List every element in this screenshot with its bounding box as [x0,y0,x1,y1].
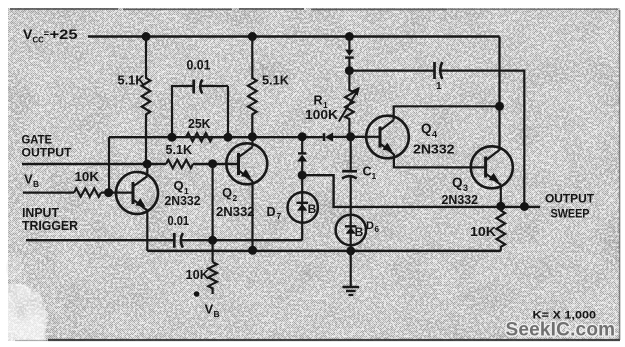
resistor 5.1K mid (horizontal) [166,160,193,168]
svg-text:V: V [205,302,214,317]
diode on node line (pointing left) [324,133,333,142]
capacitor 1 plates [435,62,443,79]
resistor 10K bottom (vertical) [208,262,217,294]
wire Q4 emitter to Q3 base [394,154,486,167]
svg-text:+25: +25 [50,26,78,42]
node dot Vcc/R-5.1K-left [142,32,151,41]
svg-text:0.01: 0.01 [187,57,211,73]
diode D6 (breakdown) [336,215,366,246]
svg-text:Q: Q [452,175,463,190]
label C1 [363,164,377,181]
svg-text:V: V [23,26,33,42]
wire D6 to bus [350,245,352,251]
svg-text:5.1K: 5.1K [166,143,193,157]
label GATE OUTPUT [22,132,73,159]
node dot trigger/riser [208,236,217,245]
resistor 10K left (horizontal) [74,188,101,196]
wire emitter bus line2 (y=250.9) [147,250,501,253]
diode pointing up (above D7) [297,153,307,161]
svg-text:10K: 10K [186,268,210,282]
wire 25K node line (y=137) [109,136,367,139]
svg-text:2N332: 2N332 [442,193,479,207]
node dot top line / R1 bottom [346,132,355,141]
label R1 [314,94,329,111]
diode top (pointing down) at R1 branch [345,37,354,71]
terminal dot VB bottom [194,291,200,297]
wire Vcc right drop to Q3 collector [498,37,500,151]
resistor 10K right (vertical) [496,206,505,251]
transistor Q1 [116,172,158,214]
label VB bottom [205,302,220,320]
node dot cap-1 line [345,66,354,75]
svg-text:TRIGGER: TRIGGER [22,219,78,233]
label Q3 [452,175,468,193]
node dot 25K-line/cap bracket left [168,133,177,142]
wire Q2 emitter drop [251,181,253,250]
wire input trigger line (y=240) [26,239,302,241]
resistor 5.1K right (vertical) [248,37,257,137]
wire Q2 collector riser [251,137,253,147]
node dot top line / D7 branch [298,132,307,141]
svg-text:5.1K: 5.1K [262,74,289,88]
svg-text:2N332: 2N332 [216,205,255,219]
svg-text:D: D [366,220,374,232]
node dot gate/coupling riser [208,159,217,168]
svg-text:B: B [214,309,220,319]
label Q2 [222,185,238,203]
transistor Q2 [226,143,267,184]
svg-text:Q: Q [222,185,232,200]
svg-text:3: 3 [463,183,468,193]
label Q4 [421,121,437,140]
light blotch bottom-left [8,284,47,341]
svg-text:25K: 25K [188,116,211,131]
svg-text:10K: 10K [470,225,496,239]
svg-text:2N332: 2N332 [413,141,455,156]
node dot gate/Q1 collector [143,160,152,169]
diode D7 (breakdown) [288,192,318,222]
wire step from D7 node to output line [302,175,540,207]
svg-text:4: 4 [432,130,437,140]
node dot Q2 collector / 5.1K right [248,132,257,141]
wire Q1 collector riser [146,164,148,175]
right scan edge [619,10,621,340]
svg-text:B: B [33,179,39,189]
svg-text:GATE: GATE [22,132,53,146]
svg-text:6: 6 [375,225,380,234]
node dot 25K-line/cap bracket right [224,133,233,142]
wire left drop x=109 [108,137,110,192]
label Q1 [174,178,190,196]
wire Q1 emitter drop [146,210,148,251]
svg-text:2N332: 2N332 [165,194,201,208]
svg-text:1: 1 [436,81,442,92]
label OUTPUT SWEEP [545,194,594,221]
label D7 [267,205,282,221]
svg-text:B: B [355,225,364,239]
node dot Vcc/diode branch [345,32,354,41]
svg-text:OUTPUT: OUTPUT [22,145,73,159]
wire VB line [23,192,132,194]
resistor 25K (horizontal) [186,133,212,141]
transistor Q4 [366,116,409,159]
potentiometer R1 100K [339,71,360,137]
wire Q3 emitter drop [500,185,502,206]
wire cap-1 line (y=70.6) [349,71,524,207]
resistor 5.1K left (vertical) [142,37,151,165]
label D6 [366,220,380,234]
svg-text:B: B [308,202,317,216]
svg-text:100K: 100K [305,107,339,122]
svg-text:C: C [363,164,372,178]
svg-text:Q: Q [421,121,432,136]
svg-text:10K: 10K [75,170,100,184]
node dot Q1 base [104,188,113,197]
svg-text:SeekIC.com: SeekIC.com [506,320,616,341]
svg-text:SWEEP: SWEEP [551,209,590,221]
capacitor C1 [342,137,357,215]
svg-text:V: V [24,172,33,187]
capacitor 0.01 bottom plates [174,233,183,248]
node dot Q2 emitter / bus [248,246,257,255]
top scan edge [10,8,447,10]
transistor Q3 [471,146,513,188]
wire D7 branch vertical x=302.2 [301,137,303,240]
svg-text:CC: CC [33,36,45,45]
node dot D7 top / step wire [298,171,307,180]
wire Q4 base [351,136,380,138]
svg-text:Q: Q [174,178,184,193]
node dot Vcc/R-5.1K-right [248,32,257,41]
capacitor 0.01 top bracket [172,80,228,138]
label VB left [24,172,39,190]
svg-text:7: 7 [277,211,282,221]
node dot D6 / bus [346,247,355,256]
bottom scan edge [48,339,620,341]
wire gate output line (y=164) [22,163,238,165]
svg-text:2: 2 [233,193,238,203]
svg-text:0.01: 0.01 [168,213,190,228]
svg-text:1: 1 [372,171,377,181]
node dot output/cap drop [520,202,529,211]
wire Vcc bus [88,35,500,38]
node dot output/Q3 emitter/10K [496,202,505,211]
ground [342,251,359,295]
wire riser x=212.6 gate to 10K [212,164,214,262]
wire Q4 collector to Vcc drop [394,106,500,120]
svg-text:INPUT: INPUT [22,206,59,220]
label Vcc = +25 [23,26,78,45]
label INPUT TRIGGER [22,206,78,233]
svg-text:OUTPUT: OUTPUT [545,194,594,206]
svg-text:5.1K: 5.1K [118,74,145,88]
svg-text:D: D [267,205,276,219]
node dot collector junction [495,102,504,111]
svg-text:R: R [314,94,323,108]
